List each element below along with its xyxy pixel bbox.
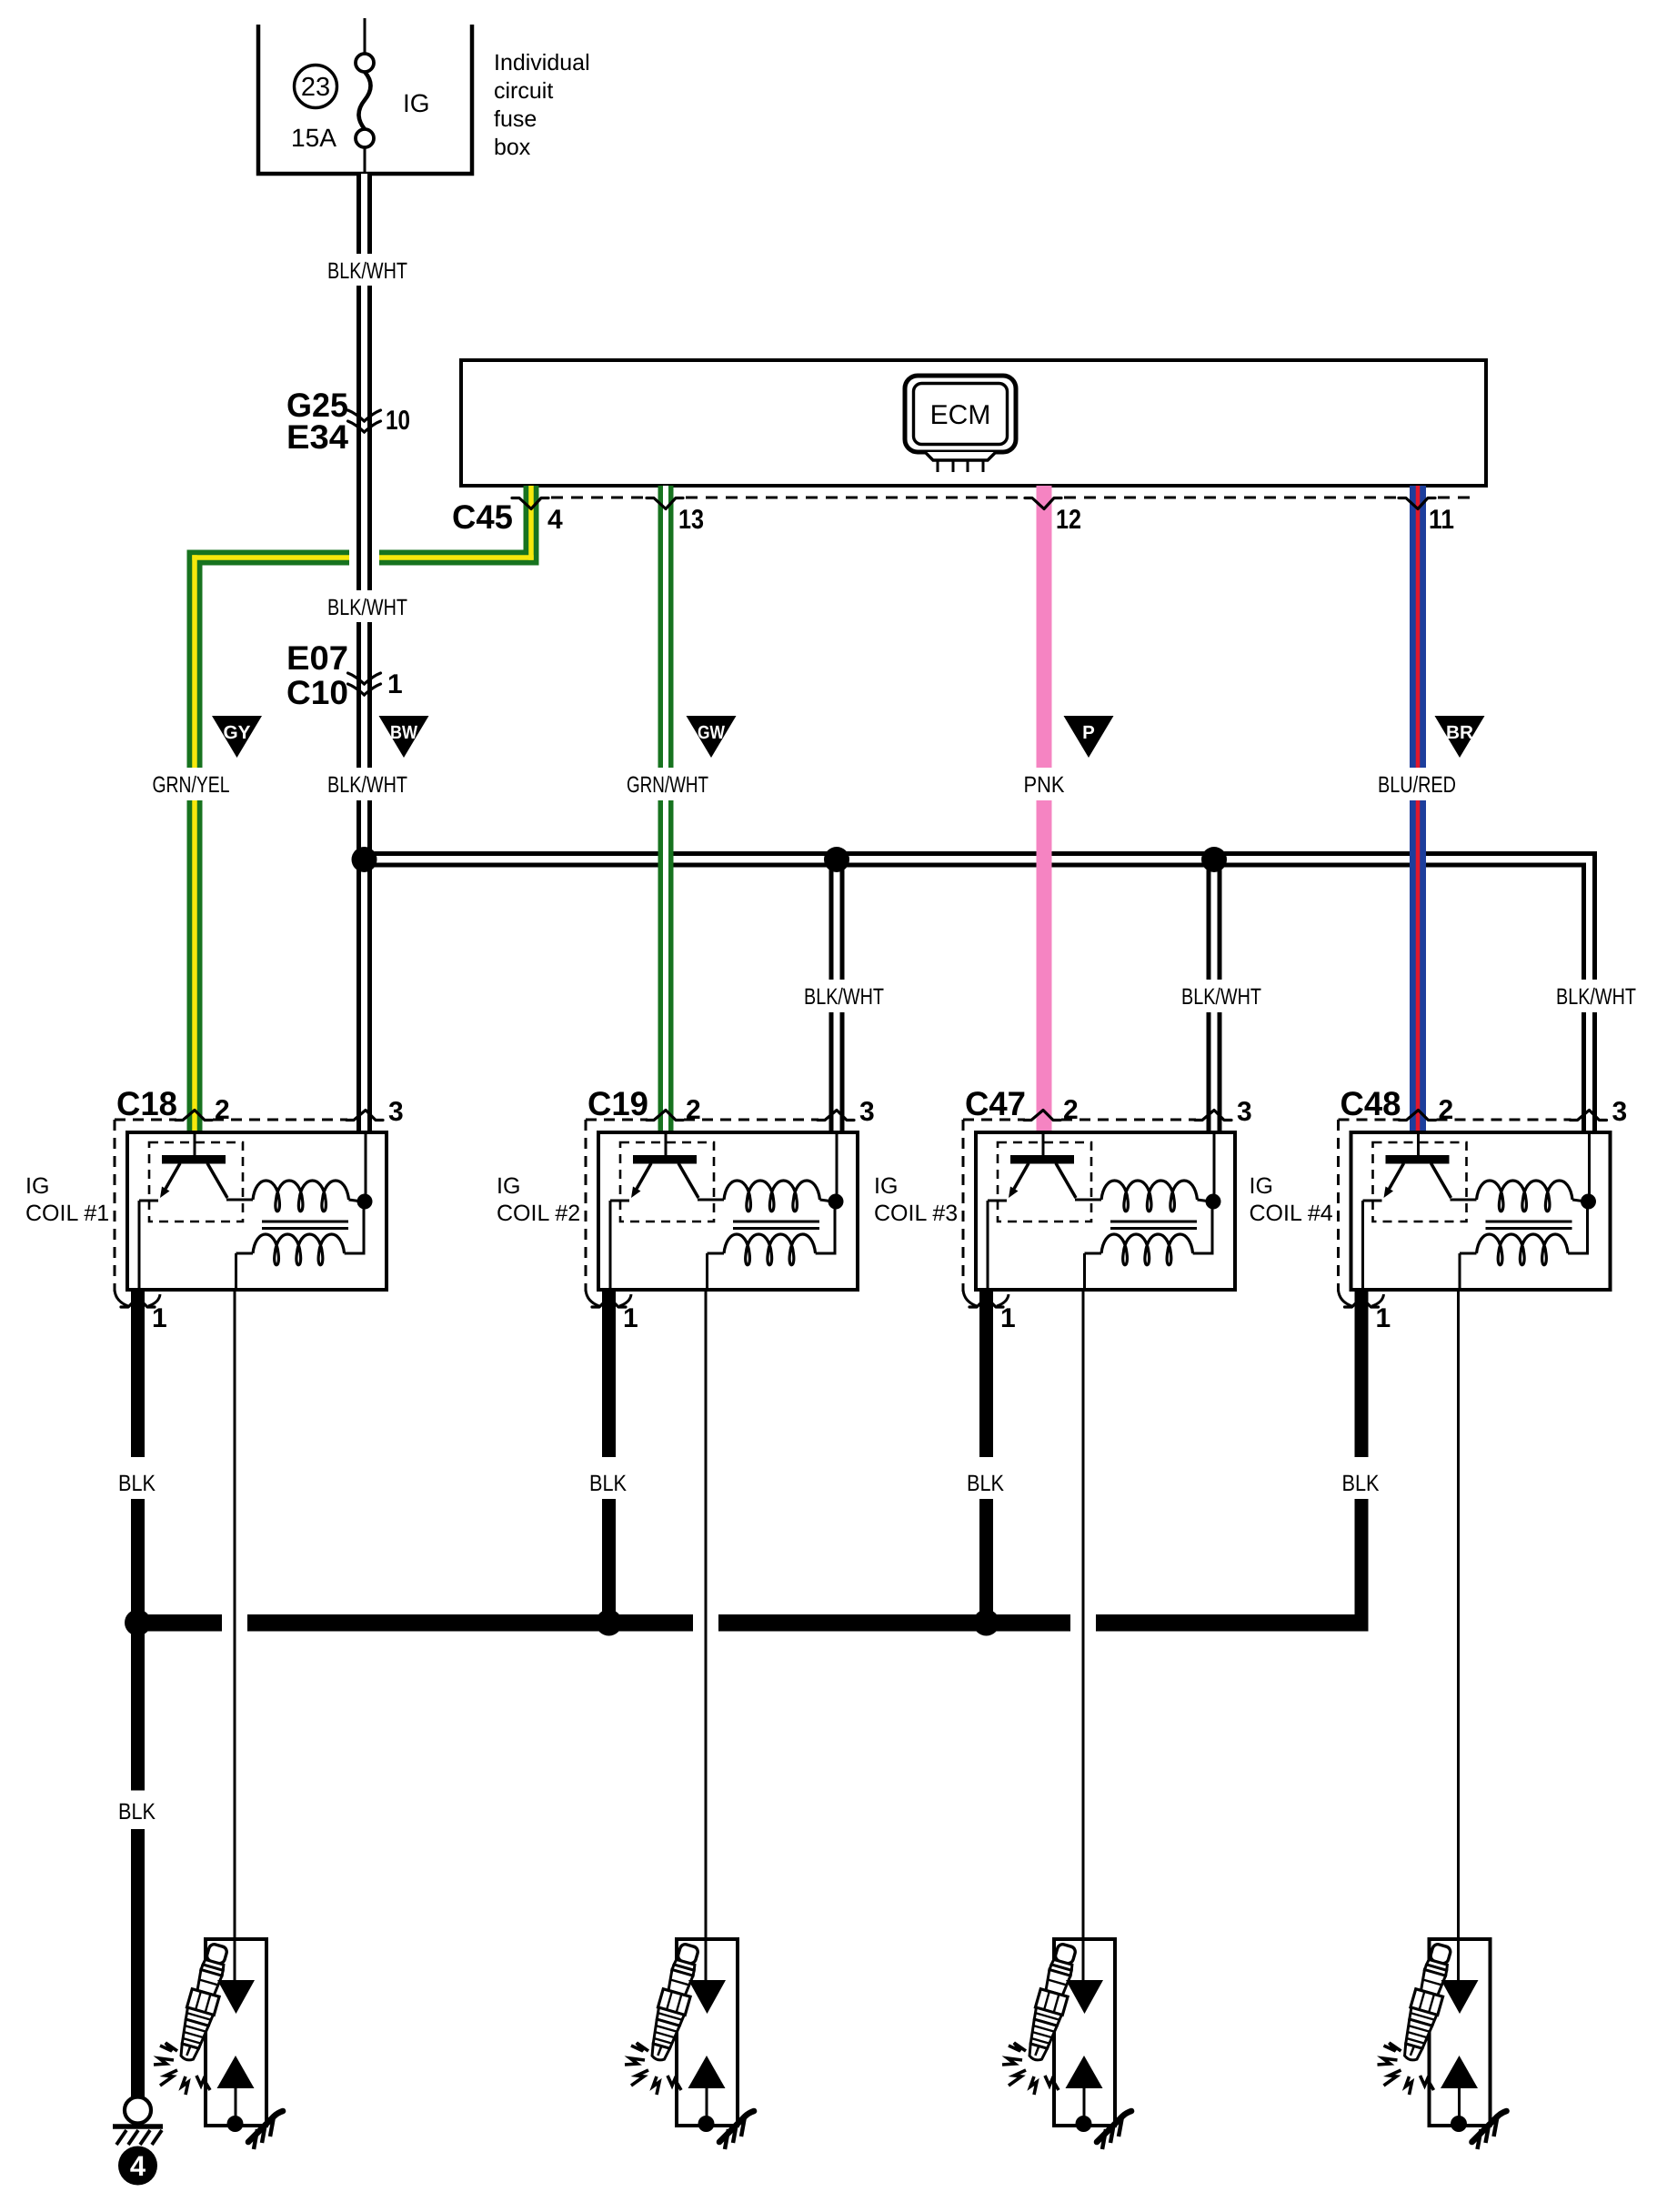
svg-text:IG: IG (25, 1173, 49, 1199)
svg-text:BW: BW (390, 722, 418, 743)
label BLK/WHT upper (323, 254, 412, 286)
svg-text:C10: C10 (286, 674, 348, 711)
junction gnd-coil1 (125, 1610, 151, 1636)
svg-text:PNK: PNK (1024, 772, 1065, 798)
svg-text:BLK/WHT: BLK/WHT (327, 595, 407, 620)
svg-text:C45: C45 (452, 498, 513, 536)
spark plug 2 (625, 1290, 754, 2149)
labels BLK/WHT above coil pin3 (799, 980, 1641, 1012)
svg-text:circuit: circuit (494, 78, 553, 104)
svg-text:COIL #3: COIL #3 (874, 1201, 958, 1226)
svg-text:BR: BR (1446, 722, 1473, 743)
svg-text:box: box (494, 135, 531, 160)
svg-text:BLK/WHT: BLK/WHT (327, 772, 407, 798)
svg-text:BLK: BLK (118, 1799, 156, 1825)
svg-text:COIL #1: COIL #1 (25, 1201, 109, 1226)
connector C45 pins (452, 498, 1454, 537)
note: Individual circuit fuse box (494, 50, 590, 160)
svg-text:C19: C19 (587, 1085, 648, 1122)
junction gnd-coil3 (973, 1610, 999, 1636)
ignition coil C48 IG COIL #4 (1250, 1085, 1628, 1631)
fuse 23 15A IG : individual circuit fuse box (258, 18, 472, 174)
ECM box U1 (461, 360, 1486, 486)
wire BLK coil1 to ground (118, 1632, 156, 2098)
wire BLK/WHT drop bus to coil2 pin3 (829, 860, 845, 1132)
svg-text:ECM: ECM (930, 400, 991, 430)
svg-text:fuse: fuse (494, 106, 537, 132)
svg-text:E34: E34 (286, 418, 348, 456)
ground G4 (113, 2097, 163, 2186)
junction bus-main (352, 847, 377, 872)
wire colour labels (147, 768, 1461, 800)
destination triangle P (1064, 716, 1114, 758)
svg-text:IG: IG (403, 89, 430, 117)
spark plug 1 (154, 1290, 283, 2149)
svg-text:E07: E07 (286, 639, 348, 677)
label BLK/WHT mid (323, 590, 412, 622)
svg-text:GRN/WHT: GRN/WHT (627, 772, 708, 798)
svg-text:15A: 15A (291, 124, 336, 152)
svg-text:BLK/WHT: BLK/WHT (1181, 984, 1261, 1010)
svg-text:BLU/RED: BLU/RED (1378, 772, 1456, 798)
ignition coil C47 IG COIL #3 (874, 1085, 1252, 1631)
ignition coil C19 IG COIL #2 (497, 1085, 875, 1631)
wire BLU/RED from ECM pin11 to coil4 pin2 (1410, 486, 1426, 1132)
wire BLK/WHT drop bus to coil3 pin3 (1207, 860, 1222, 1132)
wire GRN/YEL from ECM pin4 to coil1 pin2 (187, 486, 539, 1132)
junction gnd-coil2 (596, 1610, 622, 1636)
svg-text:23: 23 (301, 73, 330, 102)
wire GRN/WHT from ECM pin13 to coil2 pin2 (658, 486, 674, 1132)
svg-text:4: 4 (547, 505, 563, 535)
svg-text:13: 13 (678, 505, 704, 535)
svg-text:1: 1 (387, 669, 403, 699)
spark plug 4 (1378, 1290, 1507, 2149)
connector E07 C10 pin1 (286, 639, 403, 711)
svg-text:BLK/WHT: BLK/WHT (1556, 984, 1636, 1010)
svg-text:C48: C48 (1341, 1085, 1401, 1122)
svg-text:COIL #2: COIL #2 (497, 1201, 580, 1226)
svg-text:C18: C18 (116, 1085, 177, 1122)
ground bus thick BLK (131, 1614, 1369, 1632)
wire bus BLK/WHT horizontal with corner to coil4 pin3 (364, 851, 1597, 1132)
svg-text:GRN/YEL: GRN/YEL (153, 772, 230, 798)
connector C45 dashed line (551, 497, 1471, 499)
svg-text:COIL #4: COIL #4 (1250, 1201, 1333, 1226)
destination triangle GY (212, 716, 262, 758)
svg-text:P: P (1082, 722, 1095, 743)
destination triangle GW (687, 716, 737, 758)
destination triangle BW (379, 716, 429, 758)
svg-text:C47: C47 (965, 1085, 1026, 1122)
svg-text:IG: IG (1250, 1173, 1273, 1199)
wire BLK/WHT main from fuse to bus and coil1 pin3 (356, 174, 372, 1132)
svg-text:IG: IG (874, 1173, 898, 1199)
svg-text:Individual: Individual (494, 50, 590, 75)
svg-text:BLK/WHT: BLK/WHT (327, 258, 407, 284)
svg-text:4: 4 (130, 2150, 146, 2182)
svg-text:IG: IG (497, 1173, 520, 1199)
destination triangle BR (1435, 716, 1485, 758)
svg-text:10: 10 (386, 406, 410, 436)
svg-text:BLK/WHT: BLK/WHT (804, 984, 884, 1010)
junction bus-coil2 (824, 847, 849, 872)
svg-text:12: 12 (1056, 505, 1081, 535)
spark plug 3 (1002, 1290, 1131, 2149)
svg-text:GY: GY (224, 722, 251, 743)
svg-text:11: 11 (1429, 505, 1454, 535)
wire PNK from ECM pin12 to coil3 pin2 (1037, 486, 1052, 1132)
junction bus-coil3 (1201, 847, 1227, 872)
svg-text:GW: GW (698, 722, 726, 743)
connector G25 E34 pin10 (286, 387, 410, 456)
ignition coil C18 IG COIL #1 (25, 1085, 404, 1631)
